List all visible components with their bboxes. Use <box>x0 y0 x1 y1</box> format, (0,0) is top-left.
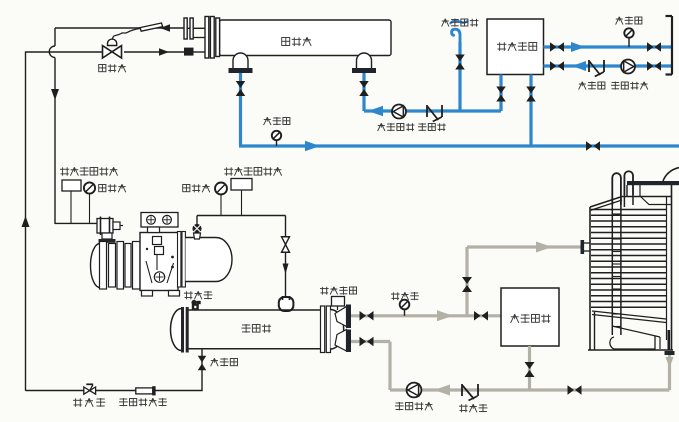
cooling tower coil box <box>590 182 672 350</box>
valve tank outlet <box>550 42 564 52</box>
evaporator liquid inlet fitting <box>184 48 205 56</box>
cooling tower fan deck <box>590 168 679 211</box>
blue pipe: tank outlet top <box>544 45 672 48</box>
label: cooling water pump <box>395 402 433 410</box>
label: strainer chilled return <box>418 123 446 131</box>
cooling water pump <box>407 383 422 398</box>
pipe: discharge riser <box>196 216 198 225</box>
compressor oil separator <box>178 232 233 288</box>
valve on discharge downcomer <box>282 237 290 253</box>
blue pipe: water source drop <box>458 42 461 111</box>
strainer on chilled return <box>427 105 442 122</box>
chilled water pump <box>392 105 406 119</box>
label: HP pressure controller <box>224 167 282 176</box>
label: LP gauge <box>99 184 126 192</box>
valve before coil unit <box>647 42 661 52</box>
label: strainer cooling <box>459 404 487 412</box>
stop valve <box>84 384 96 394</box>
fan coil unit bracket at right edge <box>666 16 673 75</box>
arrow: return to tank <box>572 61 586 71</box>
valve on source drop <box>455 55 465 70</box>
discharge muffler on condenser <box>279 296 294 311</box>
hot water tank <box>501 288 559 346</box>
blue pipe: left nozzle drop <box>239 73 242 146</box>
compressor motor with cooling ribs <box>91 242 141 290</box>
pipe: suction line evaporator top to left corner <box>55 27 184 29</box>
label: water pressure gauge mid <box>391 292 419 300</box>
pipe: suction horizontal to compressor <box>55 222 97 224</box>
pipe: discharge horizontal <box>197 215 286 217</box>
valve tank return <box>550 61 564 71</box>
valve hot tank drop <box>525 362 535 377</box>
pipe: LP controller stem <box>70 191 72 223</box>
blue pipe: tank drop left <box>499 75 502 112</box>
label: LP pressure controller <box>60 167 118 176</box>
pipe: liquid line left vertical <box>25 52 27 391</box>
gauge on condenser outlet <box>400 300 410 316</box>
gauge on chilled main <box>272 131 281 146</box>
gray pipe: tower outlet <box>668 355 671 390</box>
label: HP gauge <box>183 184 210 192</box>
label: hot water tank <box>511 314 551 323</box>
evaporator suction stub flanges <box>184 18 205 39</box>
arrow: liquid into evaporator <box>159 48 169 56</box>
compressor center housing <box>140 213 180 297</box>
pipe: bottom liquid line <box>26 390 203 392</box>
label: liquid supply valve <box>211 358 238 366</box>
strainer on coil return <box>589 60 604 77</box>
valve on tower riser <box>462 277 472 292</box>
blue pipe: chilled return line <box>364 109 501 112</box>
tower inlet flange <box>581 240 591 254</box>
gauge on coil supply <box>624 28 633 47</box>
cooling tower basin <box>588 311 673 350</box>
label: water pressure gauge left <box>264 117 290 125</box>
arrow: tower outlet down <box>666 357 674 368</box>
pipe: LP gauge stem <box>89 194 91 224</box>
LP pressure controller box <box>62 180 81 191</box>
evaporator main flange bars <box>205 17 220 59</box>
evaporator shell <box>220 20 392 56</box>
valve on cooling line <box>568 385 582 395</box>
valve condenser outlet <box>360 311 374 321</box>
valve on chilled main <box>586 141 600 151</box>
pump on coil return <box>621 60 635 74</box>
label: filter drier <box>119 398 167 406</box>
valve on left nozzle drop <box>236 81 246 96</box>
arrow: discharge down <box>283 264 289 275</box>
label: water flow switch <box>320 287 357 295</box>
condenser right flanges <box>321 306 331 353</box>
tower outlet flange <box>665 351 675 355</box>
blue pipe: tank drop right <box>529 75 532 147</box>
blue pipe: chilled supply main <box>239 144 679 147</box>
compressor discharge service valve <box>192 224 201 239</box>
condenser top nozzle cone <box>335 305 351 329</box>
safety valve on condenser <box>191 300 200 311</box>
condenser shell <box>187 310 321 349</box>
valve on right nozzle drop <box>359 81 369 96</box>
arrow: chilled supply right <box>305 141 320 152</box>
chilled water tank <box>487 19 544 75</box>
HP pressure controller box <box>231 179 252 191</box>
label: safety valve <box>184 291 212 299</box>
arrow: to hot tank <box>437 310 453 321</box>
TXV sensing bulb on suction line <box>140 23 163 31</box>
arrow: supply to coil <box>571 42 585 52</box>
label: chilled pump top right <box>611 82 648 90</box>
evaporator label <box>282 37 312 46</box>
HP gauge <box>215 183 227 216</box>
evaporator left water nozzle <box>229 53 253 73</box>
valve tank drop right <box>526 87 536 102</box>
gray pipe: hot tank drop <box>528 346 531 390</box>
cooling tower riser pipes <box>612 171 633 205</box>
arrow: liquid flow up <box>22 216 30 227</box>
label: condenser <box>242 324 272 333</box>
gray pipe: tower bottom line <box>390 388 670 391</box>
gray pipe: riser to tower <box>465 247 468 316</box>
arrow: cooling return left <box>434 385 450 396</box>
label: stop valve <box>73 398 105 407</box>
external water source symbol <box>451 21 468 44</box>
blue pipe: right nozzle drop <box>362 73 365 111</box>
label: chilled water pump <box>378 123 415 131</box>
arrow: suction out of evaporator <box>160 24 170 32</box>
condenser right head bell <box>331 310 344 350</box>
pipe: HP controller stem <box>241 190 243 216</box>
expansion valve diaphragm dome <box>108 39 117 45</box>
label: expansion valve <box>99 64 126 72</box>
strainer on cooling line <box>462 384 478 401</box>
pipe: liquid line horizontal to expansion valve <box>25 51 103 53</box>
liquid supply valve <box>198 356 207 371</box>
valve tank drop left <box>496 87 506 102</box>
evaporator right water nozzle <box>352 53 376 73</box>
expansion valve body <box>103 46 122 59</box>
arrow: chilled return left <box>368 106 383 117</box>
expansion valve capillary tube <box>113 28 142 39</box>
pipe: expansion valve to evaporator inlet <box>124 51 185 53</box>
valve before hot tank <box>474 311 488 321</box>
label: external water source <box>442 19 479 27</box>
arrow: suction flow down <box>51 89 59 100</box>
condenser left head <box>171 307 189 353</box>
label: chilled water tank <box>497 42 537 51</box>
pipe: discharge downcomer <box>285 216 287 298</box>
gray pipe: tower supply <box>467 245 582 248</box>
arrow: tower supply <box>536 242 552 253</box>
LP gauge <box>84 182 95 193</box>
pipe: suction riser left column with crossover hop <box>49 28 55 224</box>
cooling tower internal ladder <box>612 195 633 335</box>
blue pipe: coil return <box>544 64 672 67</box>
label: water pressure gauge top right <box>616 17 642 25</box>
water flow switch <box>332 297 345 311</box>
gray pipe: condenser return riser <box>351 342 390 391</box>
valve condenser return <box>360 337 374 347</box>
gray pipe: condenser outlet to hot tank <box>351 314 501 317</box>
compressor suction service fitting <box>97 217 123 243</box>
valve after coil unit <box>647 61 661 71</box>
pipe: liquid outlet drop <box>201 349 203 390</box>
label: strainer top right <box>579 82 605 90</box>
filter drier <box>136 386 156 395</box>
condenser bottom nozzle cone <box>335 330 351 353</box>
